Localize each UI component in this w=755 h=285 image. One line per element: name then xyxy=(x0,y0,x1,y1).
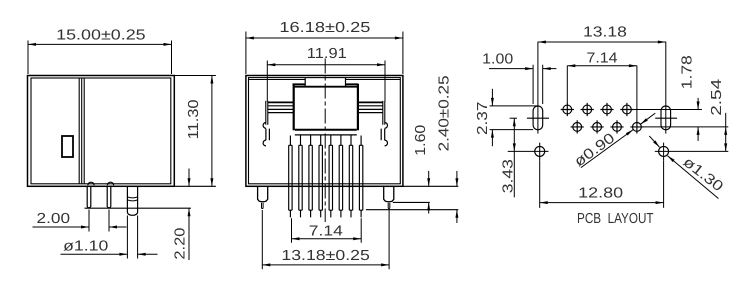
dimension 2.00 extension lines xyxy=(89,210,109,232)
contact pin 3 xyxy=(309,136,312,218)
front view right spring clip upper bump xyxy=(385,123,388,129)
svg-text:7.14: 7.14 xyxy=(309,224,343,240)
svg-text:2.40±0.25: 2.40±0.25 xyxy=(437,75,453,151)
svg-text:1.78: 1.78 xyxy=(680,55,696,89)
leader ø1.30 upper segment with arrow xyxy=(649,136,659,147)
dimension 1.78 reference lines xyxy=(634,110,729,127)
dimension 1.60 reference line xyxy=(393,201,430,203)
dimension 2.40 reference line xyxy=(366,209,458,211)
front view left post pin xyxy=(262,203,264,209)
svg-text:16.18±0.25: 16.18±0.25 xyxy=(279,20,370,36)
pcb hole B2 (bottom row, ø0.90) xyxy=(571,120,584,133)
svg-text:13.18: 13.18 xyxy=(583,24,627,40)
front view cavity top edge xyxy=(293,86,358,88)
svg-text:13.18±0.25: 13.18±0.25 xyxy=(281,248,370,264)
dimension 2.54 line with inside arrows xyxy=(725,127,727,151)
dimension 7.14 extension lines (front view) xyxy=(292,218,362,243)
leader ø1.30 lower segment with arrow xyxy=(668,156,719,199)
pcb hole A5 (top row, ø0.90) xyxy=(600,103,613,116)
side view bottom edge extension to right xyxy=(174,185,216,187)
contact pin 2 xyxy=(299,136,302,218)
svg-text:2.37: 2.37 xyxy=(475,102,491,135)
dimension 16.18±0.25 extension lines xyxy=(246,32,403,75)
svg-text:1.00: 1.00 xyxy=(482,52,513,68)
front view right ledge lines xyxy=(358,101,383,103)
pcb right slot horizontal crosshair xyxy=(655,117,677,119)
side view internal divider wall xyxy=(79,78,84,184)
dimension 7.14 line (front view) xyxy=(292,238,362,240)
dimension 7.14 line (pcb) xyxy=(567,65,637,67)
pcb hole A3 (top row, ø0.90) xyxy=(581,103,594,116)
contact pin 8 xyxy=(359,136,362,218)
dimension 13.18 extension lines (pcb) xyxy=(538,42,666,134)
front view left spring clip upper bump xyxy=(263,123,266,129)
side view leg tip reference line xyxy=(85,207,191,209)
side view contact leg 1 xyxy=(87,186,91,207)
dimension 3.43 line with inside arrows xyxy=(513,118,515,151)
front view 8 contacts group xyxy=(289,136,363,218)
leader ø0.90 tail segment with arrow xyxy=(581,130,633,168)
contact pin 4 xyxy=(319,136,322,218)
side view top edge extension to right xyxy=(174,75,216,77)
svg-text:11.91: 11.91 xyxy=(307,46,347,62)
side view mounting peg xyxy=(127,186,137,215)
dimension 2.37 reference lines xyxy=(490,106,538,130)
dimension 3.43 upper reference tick xyxy=(510,117,517,119)
pcb right big hole ø1.30 xyxy=(659,146,669,156)
front view left ledge verticals xyxy=(266,101,268,125)
front view left spring clip lower bump xyxy=(263,140,266,146)
front view body outer outline xyxy=(246,76,403,187)
dimension 1.60 lower arrow segment xyxy=(428,202,430,213)
svg-text:15.00±0.25: 15.00±0.25 xyxy=(56,28,145,44)
side view body outer outline xyxy=(28,76,175,187)
contact pin 5 xyxy=(329,136,332,218)
contact pin 1 xyxy=(289,136,292,218)
dimension 1.60 upper arrow segment xyxy=(428,171,430,186)
svg-text:2.00: 2.00 xyxy=(37,211,71,227)
dimension 11.91 extension lines xyxy=(267,61,385,102)
dimension 13.18 line (pcb) xyxy=(538,41,666,43)
side view leg shoulder bump 2 xyxy=(107,182,113,185)
pcb left big hole crosshairs xyxy=(508,143,549,161)
dimension 2.37 upper arrow segment xyxy=(491,89,493,106)
dimension 12.80 line xyxy=(540,202,664,204)
leader ø0.90 far segment with arrow xyxy=(641,113,656,124)
side view latch window xyxy=(62,136,73,157)
pcb right big hole crosshair vertical xyxy=(663,143,665,161)
pcb left big hole ø1.30 xyxy=(535,146,545,156)
front view left side latch window xyxy=(266,129,270,141)
contact pin 7 xyxy=(349,136,352,218)
dimension ø1.10 line left part xyxy=(61,253,128,255)
svg-text:11.30: 11.30 xyxy=(186,99,202,139)
dimension 1.78 lower arrow segment xyxy=(697,127,699,141)
front view cavity side walls xyxy=(294,84,358,130)
front view right spring clip lower bump xyxy=(385,140,388,146)
front view upper inner line xyxy=(249,79,401,81)
svg-text:2.54: 2.54 xyxy=(709,79,725,116)
side view body inner outline xyxy=(31,78,171,184)
side view leg shoulder bump 1 xyxy=(88,182,94,185)
svg-text:ø0.90: ø0.90 xyxy=(572,130,619,170)
dimension 1.00 line left part xyxy=(489,68,533,70)
dimension 7.14 extension lines (pcb) xyxy=(567,66,637,121)
pcb hole A7 (top row, ø0.90) xyxy=(620,103,633,116)
front view vertical center line xyxy=(324,59,326,223)
dimension 11.91 line xyxy=(267,64,385,66)
svg-text:1.60: 1.60 xyxy=(413,125,429,156)
dimension 1.00 extension lines xyxy=(533,65,543,104)
dimension 16.18±0.25 line xyxy=(246,37,403,39)
dimension 13.18±0.25 line xyxy=(262,264,389,266)
dimension 15.00±0.25 line xyxy=(28,43,172,45)
svg-text:7.14: 7.14 xyxy=(587,51,618,67)
pcb hole B6 (bottom row, ø0.90) xyxy=(610,120,623,133)
dimension 2.37 lower arrow segment xyxy=(491,130,493,147)
dimension 2.20 lower arrow segment xyxy=(188,208,190,260)
side view contact leg 2 xyxy=(107,186,111,207)
front view bottom edge extension to right xyxy=(403,185,458,187)
dimension 2.40 upper arrow segment xyxy=(456,171,458,186)
front view body inner outline xyxy=(249,78,401,184)
dimension 3.43 line lower extension xyxy=(513,151,515,197)
front view left ledge lines xyxy=(268,101,294,103)
front view right mounting post xyxy=(384,186,394,201)
dimension 2.00 line left part xyxy=(33,226,90,228)
dimension ø1.10 extension lines xyxy=(127,216,137,259)
front view latch slot sides xyxy=(305,78,345,87)
pcb hole A1 (top row, ø0.90) xyxy=(561,103,574,116)
front view contact comb upper line xyxy=(295,129,357,131)
dimension 11.30 line xyxy=(211,76,213,187)
svg-text:PCB LAYOUT: PCB LAYOUT xyxy=(577,211,654,227)
front view right side latch window xyxy=(381,129,385,141)
front view left mounting post xyxy=(258,186,268,201)
pcb right slot (1.00 x 2.37) xyxy=(661,106,671,130)
pcb hole B8 (bottom row, ø0.90) xyxy=(630,120,643,133)
front view right post pin xyxy=(388,203,390,209)
dimension 15.00±0.25 extension lines xyxy=(28,41,172,75)
dimension 1.78 upper arrow segment xyxy=(697,98,699,110)
svg-text:ø1.30: ø1.30 xyxy=(680,154,726,195)
pcb left slot (1.00 x 2.37) xyxy=(533,106,543,130)
pcb left slot horizontal crosshair xyxy=(527,117,549,119)
contact pin 6 xyxy=(339,136,342,218)
svg-text:ø1.10: ø1.10 xyxy=(63,239,108,255)
dimension 2.54 line upper extension xyxy=(725,113,727,127)
front view contact comb lower line xyxy=(295,134,357,136)
dimension ø1.10 line right part xyxy=(138,253,158,255)
dimension 1.00 line right part xyxy=(543,68,557,70)
side view peg chamfer arcs xyxy=(127,197,138,201)
dimension 12.80 extension lines xyxy=(540,160,664,208)
dimension 2.40 lower arrow segment xyxy=(456,210,458,223)
pcb layout view xyxy=(508,103,729,160)
dimension 2.00 line right part xyxy=(109,226,127,228)
svg-text:2.20: 2.20 xyxy=(173,228,189,260)
dimension 2.20 upper arrow segment xyxy=(188,169,190,187)
svg-text:3.43: 3.43 xyxy=(501,159,517,193)
front view latch slot shoulders xyxy=(293,83,359,85)
front view right ledge verticals xyxy=(383,101,385,125)
pcb hole B4 (bottom row, ø0.90) xyxy=(591,120,604,133)
pcb right big hole crosshair horizontal (2.54 reference) xyxy=(655,150,729,152)
dimension 13.18±0.25 extension lines xyxy=(262,210,389,269)
svg-text:12.80: 12.80 xyxy=(578,185,623,201)
